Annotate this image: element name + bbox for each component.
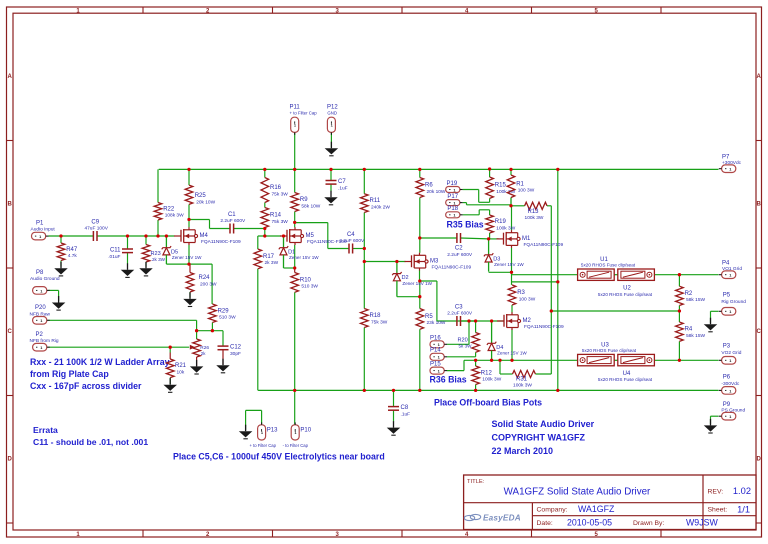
- svg-text:R2: R2: [685, 291, 693, 297]
- svg-text:C: C: [757, 329, 762, 335]
- svg-text:VO2 Grid: VO2 Grid: [721, 350, 741, 356]
- svg-text:WA1GFZ Solid State Audio Drive: WA1GFZ Solid State Audio Driver: [504, 487, 651, 498]
- svg-text:R22: R22: [163, 206, 175, 212]
- svg-text:C7: C7: [338, 179, 346, 185]
- svg-text:P15: P15: [430, 362, 441, 368]
- svg-text:P5: P5: [723, 292, 731, 298]
- svg-text:+300Vdc: +300Vdc: [722, 160, 742, 166]
- svg-text:30pF: 30pF: [230, 351, 241, 357]
- svg-text:FQA11N90C-F109: FQA11N90C-F109: [432, 265, 472, 271]
- svg-text:VO1 Grid: VO1 Grid: [722, 266, 742, 272]
- svg-text:75k 3W: 75k 3W: [272, 191, 289, 197]
- svg-text:M4: M4: [200, 233, 209, 239]
- svg-text:Zener 15V 1W: Zener 15V 1W: [402, 281, 432, 286]
- svg-text:M1: M1: [522, 236, 531, 242]
- svg-text:R25: R25: [195, 193, 207, 199]
- svg-text:R17: R17: [263, 254, 275, 260]
- svg-text:2.2uF 600V: 2.2uF 600V: [220, 218, 246, 224]
- svg-text:R5: R5: [425, 314, 433, 320]
- svg-text:P2: P2: [36, 332, 44, 338]
- svg-text:Zener 15V 1W: Zener 15V 1W: [172, 255, 202, 260]
- svg-text:P1: P1: [36, 221, 44, 227]
- svg-text:Zener 15V 1W: Zener 15V 1W: [497, 351, 527, 356]
- svg-text:22 March 2010: 22 March 2010: [492, 446, 554, 456]
- svg-text:1.02: 1.02: [733, 486, 751, 496]
- svg-text:M3: M3: [430, 259, 439, 265]
- svg-text:20k 10W: 20k 10W: [427, 189, 446, 195]
- svg-text:510 3W: 510 3W: [219, 315, 236, 321]
- svg-text:+ to Filter Cap: + to Filter Cap: [290, 111, 318, 116]
- svg-text:C11 - should be .01, not .001: C11 - should be .01, not .001: [33, 437, 148, 447]
- svg-text:58k 10W: 58k 10W: [301, 203, 320, 209]
- svg-text:5x20 RHOS Fuse clip/seat: 5x20 RHOS Fuse clip/seat: [598, 292, 653, 297]
- svg-text:100k 3W: 100k 3W: [482, 377, 501, 383]
- svg-text:2k 3W: 2k 3W: [265, 260, 279, 266]
- svg-text:1/1: 1/1: [737, 504, 750, 514]
- svg-text:2010-05-05: 2010-05-05: [567, 517, 612, 527]
- svg-text:Date:: Date:: [537, 520, 553, 527]
- svg-text:R16: R16: [270, 185, 282, 191]
- svg-text:P19: P19: [447, 181, 458, 187]
- svg-text:R29: R29: [218, 308, 230, 314]
- svg-text:R31: R31: [516, 376, 528, 382]
- svg-text:20k 10W: 20k 10W: [196, 199, 215, 205]
- svg-text:REV:: REV:: [708, 488, 724, 495]
- svg-text:100k 3W: 100k 3W: [525, 215, 544, 221]
- svg-text:.01uF: .01uF: [108, 254, 120, 260]
- svg-text:C9: C9: [91, 220, 99, 226]
- svg-text:R36 Bias: R36 Bias: [430, 374, 467, 384]
- svg-text:Place C5,C6 - 1000uf 450V Elec: Place C5,C6 - 1000uf 450V Electrolytics …: [173, 452, 385, 462]
- svg-text:C11: C11: [110, 248, 121, 254]
- svg-text:C4: C4: [347, 232, 355, 238]
- svg-text:10k: 10k: [177, 369, 185, 375]
- svg-text:200 3W: 200 3W: [200, 281, 217, 287]
- svg-text:510 3W: 510 3W: [301, 284, 318, 290]
- svg-text:R19: R19: [495, 219, 507, 225]
- svg-text:R3: R3: [517, 290, 525, 296]
- svg-text:D: D: [757, 456, 762, 462]
- svg-text:58k 15W: 58k 15W: [686, 333, 705, 339]
- svg-text:100 3W: 100 3W: [518, 188, 535, 194]
- svg-text:.1uF: .1uF: [401, 411, 411, 417]
- svg-text:PS Ground: PS Ground: [721, 408, 745, 414]
- svg-text:FQA11N90C-F109: FQA11N90C-F109: [524, 324, 564, 330]
- svg-text:C3: C3: [455, 305, 463, 311]
- svg-text:Company:: Company:: [537, 506, 568, 513]
- svg-text:58k 15W: 58k 15W: [686, 297, 705, 303]
- svg-text:2.2uF 600V: 2.2uF 600V: [447, 311, 473, 317]
- svg-text:D: D: [8, 456, 13, 462]
- svg-text:R15: R15: [495, 183, 507, 189]
- svg-text:Cxx - 167pF across divider: Cxx - 167pF across divider: [30, 381, 142, 391]
- svg-text:P10: P10: [300, 428, 311, 434]
- svg-text:Audio Input: Audio Input: [31, 227, 56, 233]
- svg-text:Sheet:: Sheet:: [708, 506, 728, 513]
- svg-text:C12: C12: [230, 345, 242, 351]
- svg-text:R6: R6: [425, 183, 433, 189]
- svg-text:108k 3W: 108k 3W: [165, 213, 184, 219]
- svg-text:C2: C2: [455, 246, 463, 252]
- svg-text:U2: U2: [623, 285, 631, 291]
- svg-text:4.7k: 4.7k: [68, 253, 78, 259]
- svg-text:R9: R9: [300, 197, 308, 203]
- svg-text:FQA11N90C-F109: FQA11N90C-F109: [524, 242, 564, 248]
- svg-text:5k 3W: 5k 3W: [459, 344, 473, 349]
- svg-text:COPYRIGHT WA1GFZ: COPYRIGHT WA1GFZ: [492, 433, 586, 443]
- svg-text:Zener 15V 1W: Zener 15V 1W: [494, 262, 524, 267]
- svg-text:R21: R21: [175, 363, 187, 369]
- svg-text:R35 Bias: R35 Bias: [447, 220, 484, 230]
- svg-text:FQA11N90C-F109: FQA11N90C-F109: [201, 239, 241, 245]
- svg-text:Rxx - 21 100K 1/2 W Ladder Arr: Rxx - 21 100K 1/2 W Ladder Array: [30, 357, 170, 367]
- svg-text:EasyEDA: EasyEDA: [483, 513, 521, 522]
- svg-text:R14: R14: [270, 213, 282, 219]
- svg-text:-300Vdc: -300Vdc: [721, 381, 739, 387]
- svg-text:P4: P4: [722, 260, 730, 266]
- svg-text:100k 3W: 100k 3W: [513, 383, 532, 389]
- svg-text:P20: P20: [35, 305, 46, 311]
- svg-text:C: C: [8, 329, 13, 335]
- svg-text:GND: GND: [327, 111, 337, 116]
- svg-text:75k 3W: 75k 3W: [272, 219, 289, 225]
- svg-text:NFB from Rig: NFB from Rig: [30, 338, 59, 344]
- svg-text:2.2uF 600V: 2.2uF 600V: [447, 252, 473, 258]
- svg-text:47uF 100V: 47uF 100V: [84, 226, 108, 232]
- svg-text:P14: P14: [430, 347, 441, 353]
- svg-text:Audio Ground: Audio Ground: [30, 276, 60, 282]
- svg-text:P6: P6: [723, 374, 731, 380]
- svg-text:Place Off-board Bias Pots: Place Off-board Bias Pots: [434, 398, 542, 408]
- svg-text:R47: R47: [66, 247, 78, 253]
- svg-text:P9: P9: [723, 402, 731, 408]
- svg-text:5x20 RHOS Fuse clip/seat: 5x20 RHOS Fuse clip/seat: [582, 348, 637, 353]
- svg-text:from Rig Plate Cap: from Rig Plate Cap: [30, 369, 109, 379]
- svg-text:M2: M2: [523, 318, 532, 324]
- svg-text:W9JSW: W9JSW: [686, 517, 718, 527]
- svg-text:R13: R13: [527, 209, 539, 215]
- svg-text:2k: 2k: [201, 351, 206, 356]
- svg-text:240k 2W: 240k 2W: [371, 204, 390, 210]
- svg-text:B: B: [8, 201, 13, 207]
- svg-text:R18: R18: [370, 313, 382, 319]
- svg-text:Zener 15V 1W: Zener 15V 1W: [289, 255, 319, 260]
- svg-text:R24: R24: [199, 275, 211, 281]
- svg-text:75k 3W: 75k 3W: [371, 319, 388, 325]
- svg-text:Solid State Audio Driver: Solid State Audio Driver: [492, 419, 595, 429]
- svg-text:TITLE:: TITLE:: [467, 479, 485, 485]
- svg-text:P18: P18: [447, 206, 458, 212]
- svg-text:.1uF: .1uF: [338, 185, 348, 191]
- svg-text:C1: C1: [228, 212, 236, 218]
- svg-text:23k 10W: 23k 10W: [427, 320, 446, 326]
- svg-text:WA1GFZ: WA1GFZ: [578, 504, 615, 514]
- svg-text:5x20 RHOS Fuse clip/seat: 5x20 RHOS Fuse clip/seat: [581, 263, 636, 268]
- svg-text:B: B: [757, 201, 762, 207]
- svg-text:P3: P3: [723, 343, 731, 349]
- svg-text:100 3W: 100 3W: [519, 296, 536, 302]
- svg-text:P7: P7: [722, 154, 730, 160]
- svg-text:P17: P17: [447, 194, 458, 200]
- svg-text:+ to Filter Cap: + to Filter Cap: [250, 443, 277, 448]
- svg-text:P13: P13: [267, 428, 278, 434]
- svg-text:2k 3W: 2k 3W: [152, 257, 166, 262]
- svg-text:Drawn By:: Drawn By:: [633, 520, 664, 527]
- svg-text:R4: R4: [685, 327, 693, 333]
- svg-text:- to Filter Cap: - to Filter Cap: [283, 443, 309, 448]
- svg-text:Errata: Errata: [33, 425, 58, 435]
- svg-text:R12: R12: [481, 370, 493, 376]
- svg-text:A: A: [8, 74, 13, 80]
- svg-text:100k 3W: 100k 3W: [496, 225, 515, 231]
- svg-text:A: A: [757, 74, 762, 80]
- svg-text:P8: P8: [36, 270, 44, 276]
- svg-text:5x20 RHOS Fuse clip/seat: 5x20 RHOS Fuse clip/seat: [598, 377, 653, 382]
- svg-text:R1: R1: [516, 181, 524, 187]
- svg-text:R11: R11: [370, 198, 381, 204]
- svg-text:R10: R10: [300, 277, 312, 283]
- svg-text:M5: M5: [306, 233, 315, 239]
- svg-text:Rig Ground: Rig Ground: [721, 299, 746, 305]
- svg-text:U4: U4: [623, 371, 631, 377]
- svg-text:NFB Raw: NFB Raw: [30, 311, 51, 317]
- svg-text:C8: C8: [401, 405, 409, 411]
- svg-text:P16: P16: [430, 335, 441, 341]
- svg-text:FQA11N90C-F109: FQA11N90C-F109: [307, 239, 347, 245]
